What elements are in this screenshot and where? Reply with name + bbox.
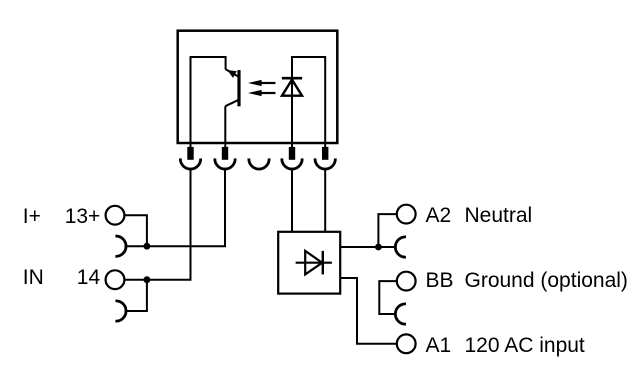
wire collector to pin 2 (224, 106, 226, 148)
socket 5 (315, 158, 335, 169)
wire pin1 socket to terminal 14 (125, 170, 191, 280)
terminal A2 (397, 205, 416, 224)
optocoupler module outline (178, 31, 338, 143)
svg-text:IN: IN (23, 266, 44, 289)
junction at 13+ socket row (144, 243, 151, 250)
wire pin2 socket to 13+ socket (125, 170, 226, 246)
bridge rectifier box (278, 232, 340, 294)
light arrow 1 (261, 82, 276, 84)
terminal A1 (397, 334, 416, 353)
socket 2 (215, 158, 235, 169)
LED D1 cathode bar (282, 77, 302, 80)
svg-text:BB: BB (426, 269, 454, 292)
pin 5 (322, 147, 328, 160)
junction at 14 row (144, 276, 151, 283)
svg-text:Ground (optional): Ground (optional) (465, 269, 628, 292)
rectifier diode axis line (296, 262, 332, 264)
wire junction to terminal A2 (378, 214, 396, 247)
socket 4 (282, 158, 302, 169)
wire pin4 socket to rectifier (291, 170, 293, 232)
wire terminal 13+ to junction (125, 215, 147, 246)
socket 1 (180, 158, 200, 169)
svg-text:A1: A1 (426, 334, 452, 357)
transistor Q1 emitter diagonal (226, 69, 239, 77)
wire rectifier to terminal A1 (340, 278, 396, 344)
wire emitter branch (pin1 to transistor top) (191, 57, 226, 148)
junction at A2 row (375, 244, 382, 251)
socket 14 (115, 301, 126, 321)
svg-text:I+: I+ (23, 205, 41, 228)
terminal 14 (106, 270, 125, 289)
pin 4 (289, 147, 295, 160)
rectifier diode cathode bar (322, 251, 324, 275)
socket A2 (395, 237, 406, 257)
transistor Q1 bar (237, 70, 240, 106)
pin 2 (222, 147, 228, 160)
svg-text:120 AC input: 120 AC input (465, 334, 585, 357)
terminal 13+ (106, 206, 125, 225)
terminal BB (397, 272, 416, 291)
socket 13+ (115, 236, 126, 256)
wire terminal BB to BB socket (379, 281, 396, 314)
wire LED branch (pin4 through LED up and over to pin5) (292, 57, 325, 148)
svg-text:A2: A2 (426, 204, 452, 227)
pin 1 (187, 147, 193, 160)
socket 3 (249, 158, 269, 169)
rectifier diode triangle (305, 251, 322, 275)
wire 14 socket to junction (125, 280, 147, 311)
wire pin5 socket to rectifier (324, 170, 326, 232)
svg-text:Neutral: Neutral (465, 204, 533, 227)
light arrow 2 (261, 92, 276, 94)
transistor Q1 collector diagonal (225, 100, 239, 107)
transistor Q1 emitter arrow (227, 70, 237, 78)
LED D1 triangle (282, 80, 302, 96)
wire rectifier to A2 junction and A2 socket (340, 246, 396, 248)
socket BB (395, 304, 406, 324)
svg-text:14: 14 (77, 266, 101, 289)
svg-text:13+: 13+ (65, 205, 101, 228)
